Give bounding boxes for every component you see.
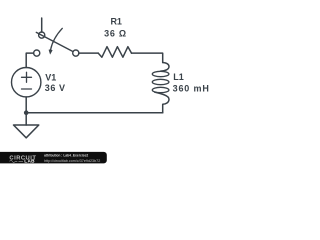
wire: bottom return rail [26,112,163,114]
inductor L1 ring 2 [152,79,169,84]
switch SW1 throw-2 contact circle [34,50,40,56]
svg-text:attribution : Lab4_Exercise2: attribution : Lab4_Exercise2 [44,154,88,158]
svg-text:R1: R1 [110,17,122,27]
watermark logo waveform squiggle [10,160,24,162]
svg-text:360 mH: 360 mH [173,83,210,93]
voltage source V1 minus sign [22,88,32,90]
junction node at V1 bottom [24,110,29,115]
inductor L1 exit hook [155,92,169,113]
switch SW1 throw-1 terminal stub [41,18,43,32]
wire: throw-2 to left rail [26,53,34,67]
ground symbol [14,125,39,138]
wire: resistor to top-right corner [132,53,163,62]
wire: common contact to resistor [79,52,99,54]
inductor L1 entry hook [161,63,169,72]
svg-text:L1: L1 [173,72,184,82]
svg-text:LAB: LAB [24,159,35,164]
switch SW1 common contact circle [73,50,79,56]
switch SW1 actuation arrow [49,28,63,54]
switch SW1 throw-1 contact circle [39,32,45,38]
ground lead [25,113,27,125]
voltage source V1 circle [12,68,41,97]
inductor L1 ring 1 [152,71,169,76]
switch SW1 blade [36,32,73,51]
inductor L1 ring 3 [152,87,169,92]
voltage source V1 plus sign [22,72,32,82]
watermark CircuitLab attribution box [0,152,107,164]
svg-text:http://circuitlab.com/c/37e9d2: http://circuitlab.com/c/37e9d23b72 [44,159,100,163]
svg-text:36 V: 36 V [45,83,66,93]
svg-text:36 Ω: 36 Ω [104,29,127,39]
resistor R1 zigzag [98,47,131,58]
wire: V1 bottom to ground node [25,97,27,113]
svg-text:V1: V1 [45,72,56,82]
